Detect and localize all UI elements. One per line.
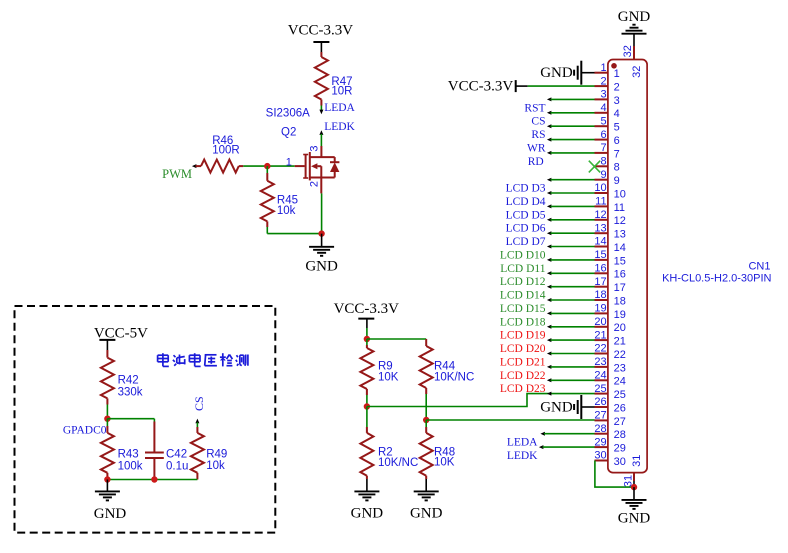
svg-text:30: 30 bbox=[614, 456, 626, 468]
svg-text:5: 5 bbox=[614, 122, 620, 134]
svg-text:10K: 10K bbox=[434, 457, 455, 469]
svg-text:100R: 100R bbox=[212, 144, 240, 156]
svg-text:28: 28 bbox=[594, 423, 606, 435]
svg-text:24: 24 bbox=[614, 376, 626, 388]
svg-text:330k: 330k bbox=[118, 387, 143, 399]
svg-text:C42: C42 bbox=[166, 449, 187, 461]
svg-text:14: 14 bbox=[614, 242, 626, 254]
svg-text:18: 18 bbox=[614, 295, 626, 307]
svg-text:LCD D11: LCD D11 bbox=[500, 263, 546, 275]
svg-text:LCD D4: LCD D4 bbox=[506, 196, 546, 208]
svg-text:LCD D23: LCD D23 bbox=[500, 383, 546, 395]
svg-text:8: 8 bbox=[614, 162, 620, 174]
svg-text:10K: 10K bbox=[378, 372, 399, 384]
svg-text:LCD D15: LCD D15 bbox=[500, 303, 546, 315]
svg-text:6: 6 bbox=[600, 129, 606, 141]
svg-text:29: 29 bbox=[594, 436, 606, 448]
svg-text:31: 31 bbox=[631, 455, 643, 467]
svg-text:6: 6 bbox=[614, 135, 620, 147]
svg-text:19: 19 bbox=[614, 309, 626, 321]
svg-text:LEDA: LEDA bbox=[324, 102, 355, 114]
svg-text:17: 17 bbox=[594, 276, 606, 288]
svg-text:25: 25 bbox=[594, 383, 606, 395]
svg-text:12: 12 bbox=[614, 215, 626, 227]
svg-text:20: 20 bbox=[614, 322, 626, 334]
svg-text:32: 32 bbox=[631, 66, 643, 78]
svg-text:R49: R49 bbox=[206, 449, 227, 461]
svg-text:13: 13 bbox=[614, 229, 626, 241]
svg-text:VCC-3.3V: VCC-3.3V bbox=[334, 301, 400, 317]
svg-text:GND: GND bbox=[540, 399, 573, 415]
svg-text:10k: 10k bbox=[277, 205, 296, 217]
svg-text:1: 1 bbox=[286, 156, 292, 168]
svg-text:CS: CS bbox=[192, 396, 206, 411]
svg-text:R43: R43 bbox=[118, 449, 139, 461]
svg-text:GND: GND bbox=[618, 511, 651, 527]
svg-text:19: 19 bbox=[594, 303, 606, 315]
svg-text:1: 1 bbox=[614, 68, 620, 80]
svg-text:VCC-3.3V: VCC-3.3V bbox=[448, 79, 514, 95]
svg-text:2: 2 bbox=[614, 82, 620, 94]
svg-text:LCD D10: LCD D10 bbox=[500, 249, 546, 261]
svg-text:4: 4 bbox=[600, 102, 606, 114]
svg-text:28: 28 bbox=[614, 429, 626, 441]
svg-text:R42: R42 bbox=[118, 375, 139, 387]
svg-text:LEDK: LEDK bbox=[507, 450, 538, 462]
svg-text:3: 3 bbox=[600, 89, 606, 101]
svg-text:4: 4 bbox=[614, 108, 620, 120]
svg-text:10k: 10k bbox=[206, 460, 225, 472]
svg-text:100k: 100k bbox=[118, 461, 143, 473]
svg-text:11: 11 bbox=[614, 202, 625, 214]
svg-text:27: 27 bbox=[614, 416, 626, 428]
svg-text:31: 31 bbox=[623, 475, 635, 487]
svg-text:16: 16 bbox=[594, 263, 606, 275]
svg-text:12: 12 bbox=[594, 209, 606, 221]
svg-text:8: 8 bbox=[600, 156, 606, 168]
svg-text:11: 11 bbox=[595, 196, 606, 208]
svg-text:0.1u: 0.1u bbox=[166, 461, 188, 473]
svg-text:VCC-3.3V: VCC-3.3V bbox=[288, 23, 354, 39]
svg-text:LCD D7: LCD D7 bbox=[506, 236, 546, 248]
svg-text:RD: RD bbox=[528, 156, 544, 168]
svg-text:21: 21 bbox=[594, 329, 606, 341]
svg-text:CS: CS bbox=[531, 116, 545, 128]
svg-text:KH-CL0.5-H2.0-30PIN: KH-CL0.5-H2.0-30PIN bbox=[662, 273, 771, 285]
svg-text:2: 2 bbox=[600, 75, 606, 87]
svg-text:22: 22 bbox=[614, 349, 626, 361]
svg-text:1: 1 bbox=[600, 62, 606, 74]
svg-text:GND: GND bbox=[540, 65, 573, 81]
svg-text:9: 9 bbox=[600, 169, 606, 181]
svg-text:GPADC0: GPADC0 bbox=[63, 425, 107, 437]
svg-text:RS: RS bbox=[531, 129, 545, 141]
svg-text:LEDK: LEDK bbox=[324, 121, 355, 133]
svg-text:22: 22 bbox=[594, 343, 606, 355]
svg-text:26: 26 bbox=[614, 402, 626, 414]
svg-text:15: 15 bbox=[594, 249, 606, 261]
svg-text:15: 15 bbox=[614, 255, 626, 267]
svg-text:GND: GND bbox=[618, 9, 651, 25]
svg-text:30: 30 bbox=[594, 450, 606, 462]
svg-text:16: 16 bbox=[614, 269, 626, 281]
svg-text:GND: GND bbox=[351, 506, 384, 522]
svg-text:10: 10 bbox=[594, 182, 606, 194]
svg-text:32: 32 bbox=[622, 45, 634, 57]
svg-text:Q2: Q2 bbox=[281, 127, 296, 139]
svg-text:18: 18 bbox=[594, 289, 606, 301]
svg-text:27: 27 bbox=[594, 410, 606, 422]
svg-text:LCD D18: LCD D18 bbox=[500, 316, 546, 328]
svg-text:CN1: CN1 bbox=[748, 261, 770, 273]
svg-text:10: 10 bbox=[614, 188, 626, 200]
svg-text:LEDA: LEDA bbox=[507, 437, 538, 449]
svg-text:13: 13 bbox=[594, 222, 606, 234]
svg-text:7: 7 bbox=[600, 142, 606, 154]
svg-text:LCD D19: LCD D19 bbox=[500, 330, 546, 342]
svg-text:10R: 10R bbox=[331, 85, 352, 97]
svg-text:LCD D3: LCD D3 bbox=[506, 183, 546, 195]
svg-text:20: 20 bbox=[594, 316, 606, 328]
svg-text:10K/NC: 10K/NC bbox=[378, 457, 418, 469]
svg-text:21: 21 bbox=[614, 336, 626, 348]
svg-text:WR: WR bbox=[527, 142, 546, 154]
svg-text:3: 3 bbox=[614, 95, 620, 107]
svg-text:23: 23 bbox=[594, 356, 606, 368]
svg-text:GND: GND bbox=[305, 259, 338, 275]
svg-text:GND: GND bbox=[94, 506, 127, 522]
svg-text:LCD D20: LCD D20 bbox=[500, 343, 546, 355]
svg-text:26: 26 bbox=[594, 396, 606, 408]
svg-text:25: 25 bbox=[614, 389, 626, 401]
svg-text:10K/NC: 10K/NC bbox=[434, 372, 474, 384]
svg-text:SI2306A: SI2306A bbox=[266, 107, 310, 119]
svg-text:LCD D5: LCD D5 bbox=[506, 209, 546, 221]
svg-text:LCD D14: LCD D14 bbox=[500, 290, 546, 302]
svg-text:5: 5 bbox=[600, 115, 606, 127]
svg-text:2: 2 bbox=[309, 181, 321, 187]
svg-text:9: 9 bbox=[614, 175, 620, 187]
svg-text:29: 29 bbox=[614, 443, 626, 455]
svg-text:LCD D6: LCD D6 bbox=[506, 223, 546, 235]
svg-text:GND: GND bbox=[410, 506, 443, 522]
svg-text:24: 24 bbox=[594, 370, 606, 382]
svg-text:PWM: PWM bbox=[162, 167, 192, 181]
svg-text:14: 14 bbox=[594, 236, 606, 248]
svg-text:7: 7 bbox=[614, 148, 620, 160]
svg-text:LCD D21: LCD D21 bbox=[500, 356, 546, 368]
svg-text:3: 3 bbox=[309, 145, 321, 151]
svg-text:LCD D12: LCD D12 bbox=[500, 276, 546, 288]
svg-text:23: 23 bbox=[614, 362, 626, 374]
svg-text:LCD D22: LCD D22 bbox=[500, 370, 546, 382]
svg-text:RST: RST bbox=[524, 102, 545, 114]
svg-text:17: 17 bbox=[614, 282, 626, 294]
